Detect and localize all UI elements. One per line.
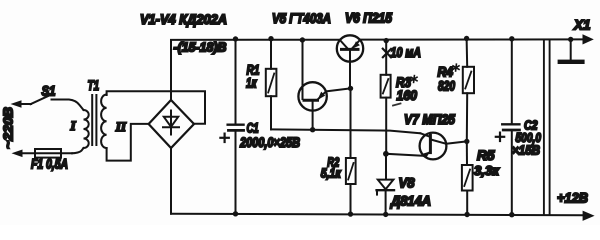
wire: bridge plus output down to bottom rail (170, 148, 172, 214)
svg-text:R4: R4 (438, 65, 454, 80)
svg-text:V6 П215: V6 П215 (345, 11, 392, 26)
transformer T1 secondary winding II (101, 95, 107, 149)
svg-text:S1: S1 (42, 84, 56, 99)
label C2 plus sign (496, 133, 504, 141)
wire: fuse to primary bottom (72, 148, 84, 153)
label C1 plus sign (220, 134, 228, 142)
svg-text:3,3к: 3,3к (474, 163, 500, 178)
svg-text:~220В: ~220В (1, 107, 16, 149)
label R3* 160 (396, 75, 417, 103)
label R2 5,1k (321, 155, 342, 181)
wire: V8 node to V7 emitter (386, 154, 424, 156)
svg-text:I: I (70, 118, 77, 133)
svg-text:5,1к: 5,1к (321, 166, 342, 181)
svg-text:V8: V8 (399, 176, 415, 191)
resistor R1 (266, 39, 277, 130)
svg-text:2000,0×25В: 2000,0×25В (239, 135, 300, 150)
label C2 value (512, 119, 542, 158)
wire: AC input top lead with left arrow (11, 100, 32, 108)
wire: V7 base to divider node (446, 141, 467, 143)
stray mark under R3 (393, 104, 401, 106)
transformer T1 core (92, 95, 96, 145)
wire: bottom rail (positive bus) (171, 214, 584, 216)
wire: R1 bottom / V5 base / V7 collector node (271, 129, 420, 133)
svg-text:R5: R5 (477, 148, 495, 163)
connector double line (544, 40, 550, 214)
svg-text:V1-V4 КД202А: V1-V4 КД202А (140, 12, 227, 27)
resistor R4 (463, 39, 474, 142)
transistor V6 (337, 35, 363, 88)
svg-text:V5 ГТ403А: V5 ГТ403А (272, 11, 331, 26)
resistor R5 (462, 165, 473, 215)
label V8 D814A (390, 176, 431, 209)
svg-text:Д814А: Д814А (390, 194, 431, 209)
wire: V6 base line down to R2 (350, 88, 352, 158)
label R1 1k (246, 63, 260, 91)
svg-text:F1 0,5A: F1 0,5A (31, 157, 68, 172)
zener diode V8 (377, 154, 394, 215)
svg-text:X1: X1 (573, 17, 591, 33)
wire: AC input bottom lead with left arrow (12, 150, 73, 158)
svg-text:-(15-18)В: -(15-18)В (174, 41, 227, 55)
svg-text:II: II (115, 119, 127, 134)
resistor R3 (381, 41, 391, 154)
wire: top rail (negative bus) (171, 38, 584, 41)
svg-text:1к: 1к (246, 76, 257, 91)
test point cross x10mA (383, 49, 391, 58)
junction dots middle nodes (310, 86, 470, 157)
junction dots top rail (233, 36, 574, 44)
fuse F1 (35, 149, 61, 158)
wire: V5 emitter to V6 base node (326, 88, 351, 91)
bridge rectifier V1-V4 diamond (149, 100, 194, 148)
wire: secondary top to bridge right vertex (107, 91, 205, 124)
svg-text:V7 МП25: V7 МП25 (404, 112, 455, 127)
svg-text:10 мА: 10 мА (391, 45, 422, 60)
output arrow +12V bottom (583, 211, 595, 221)
transistor V7 (420, 133, 447, 160)
svg-text:×15В: ×15В (512, 143, 540, 158)
output arrow X1 top (583, 34, 594, 44)
transistor V5 (298, 40, 326, 129)
transformer T1 primary winding I (84, 110, 89, 148)
svg-text:160: 160 (397, 88, 418, 103)
label R5 3,3k (474, 148, 500, 178)
label R4* 820 (438, 64, 460, 93)
junction dots bottom rail (233, 211, 515, 217)
svg-text:820: 820 (438, 79, 455, 94)
label C1 value (239, 121, 300, 151)
svg-text:C1: C1 (247, 121, 259, 136)
wire: switch to transformer primary top (52, 100, 84, 111)
resistor R2 (346, 158, 356, 214)
switch S1 (31, 96, 50, 105)
capacitor C1 (228, 39, 244, 214)
ground (558, 39, 585, 64)
wire: divider node down to R5 (466, 141, 468, 165)
wire: secondary bottom to bridge left vertex (107, 124, 148, 161)
svg-text:T1: T1 (88, 78, 100, 93)
bridge diode symbol (163, 111, 179, 135)
capacitor C2 (502, 39, 519, 215)
wire: bridge minus output up to top rail (170, 40, 172, 100)
svg-text:+12В: +12В (557, 190, 588, 206)
